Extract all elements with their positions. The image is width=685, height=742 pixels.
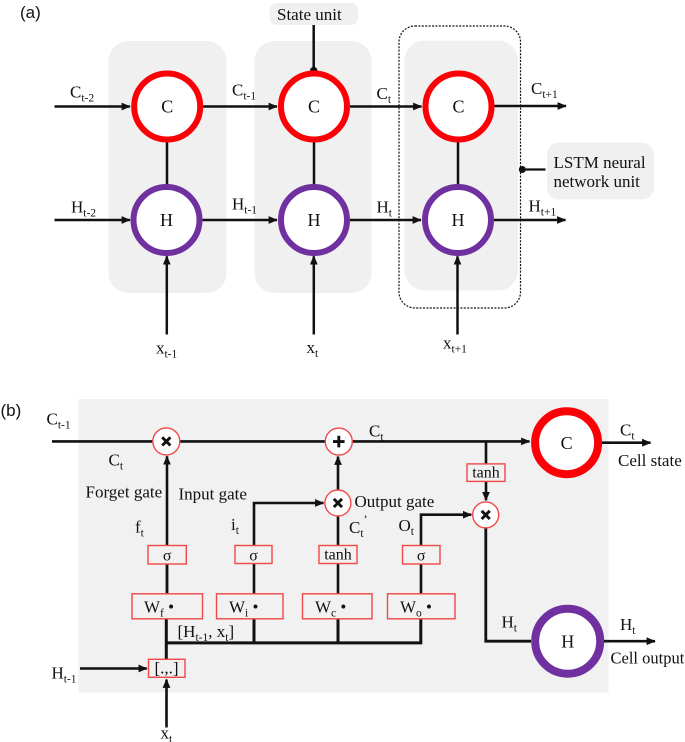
wire: multiply down to H node: [486, 527, 531, 641]
sigma box (forget): [148, 546, 186, 565]
svg-text:Ct: Ct: [620, 421, 635, 443]
wire: concat bus: [166, 619, 420, 643]
wire: bus branch to Wc: [337, 619, 340, 643]
wire Ct-1 arrow: [203, 105, 277, 108]
wire C-H connector cell 2: [313, 140, 316, 186]
cell group background 2: [255, 41, 372, 293]
H output node cell 3: [425, 187, 491, 253]
svg-text:Ct-1: Ct-1: [232, 81, 256, 103]
wire: junction down through tanh to multiply: [485, 441, 488, 500]
wire: candidate vertical Wc-tanh-multiply: [337, 503, 340, 594]
svg-text:Wo •: Wo •: [400, 598, 432, 620]
C state node cell 2: [281, 74, 347, 140]
svg-text:H: H: [452, 210, 465, 230]
wire C out arrow: [602, 441, 651, 444]
svg-text:C: C: [561, 433, 573, 453]
Wo weight box: [388, 594, 456, 619]
wire Ht+1 output arrow: [494, 219, 566, 222]
sigma box (input): [235, 546, 272, 564]
svg-text:σ: σ: [417, 548, 426, 565]
Wf weight box: [132, 594, 203, 619]
svg-text:Ct+1: Ct+1: [531, 79, 558, 101]
svg-text:C: C: [161, 97, 173, 117]
svg-text:tanh: tanh: [324, 547, 352, 564]
wire: sigma1 to Wf: [166, 563, 169, 595]
svg-text:(a): (a): [20, 3, 41, 22]
cell group background 1: [109, 41, 227, 293]
svg-text:[.,.]: [.,.]: [154, 659, 178, 678]
wire Ht-1 arrow: [203, 219, 278, 222]
wire: concat up to Wf: [165, 618, 168, 660]
cell group background 3: [405, 41, 519, 291]
H cell-output node: [535, 609, 600, 674]
wire C-H connector cell 1: [166, 140, 169, 186]
svg-text:Ht: Ht: [377, 198, 393, 220]
svg-text:State unit: State unit: [277, 5, 342, 24]
svg-text:H: H: [308, 210, 321, 230]
LSTM neural network unit label box: [547, 143, 654, 200]
svg-text:Ht+1: Ht+1: [529, 197, 557, 219]
svg-text:tanh: tanh: [472, 465, 500, 482]
tanh box (cell state): [467, 464, 505, 482]
wire Ct+1 output arrow: [495, 105, 567, 108]
svg-text:Cell state: Cell state: [618, 451, 682, 470]
svg-text:xt: xt: [161, 724, 174, 742]
H output node cell 2: [281, 187, 347, 253]
svg-text:σ: σ: [249, 548, 258, 565]
svg-text:xt+1: xt+1: [443, 334, 467, 356]
wire Ct arrow: [350, 105, 422, 108]
State unit label box: [270, 3, 359, 25]
svg-text:Ct-2: Ct-2: [70, 83, 94, 105]
C cell-state node: [535, 411, 598, 474]
Wc weight box: [303, 594, 373, 619]
wire Ht-1 input arrow: [80, 667, 147, 670]
sigma box (output): [403, 546, 441, 565]
wire: input gate L to multiply: [254, 503, 324, 594]
svg-text:Ht-2: Ht-2: [71, 198, 96, 220]
junction dot on dashed boundary: [519, 166, 526, 173]
svg-text:Input gate: Input gate: [179, 485, 247, 504]
concat box: [149, 659, 186, 677]
wire: multiply to add arrow: [337, 457, 340, 491]
svg-text:Ht: Ht: [620, 615, 636, 637]
dashed LSTM unit boundary: [399, 26, 521, 308]
svg-text:Wi •: Wi •: [229, 598, 258, 620]
add node: [325, 428, 352, 455]
svg-text:Wf •: Wf •: [144, 598, 174, 620]
cell internals backdrop: [79, 399, 609, 693]
wire xt-1 input arrow: [166, 256, 169, 334]
tanh box (candidate): [319, 546, 357, 564]
wire: State unit to C cell: [312, 25, 315, 70]
svg-text:C: C: [452, 97, 464, 117]
svg-text:Ct: Ct: [377, 84, 392, 106]
C state node cell 3: [426, 74, 492, 140]
wire Ct-2 input arrow: [55, 105, 131, 108]
wire Ht arrow: [350, 219, 421, 222]
C state node cell 1: [134, 74, 200, 140]
svg-text:xt: xt: [307, 338, 320, 360]
svg-text:H: H: [561, 632, 574, 652]
svg-text:(b): (b): [1, 401, 22, 420]
svg-text:xt-1: xt-1: [156, 339, 178, 361]
wire xt+1 input arrow: [456, 256, 459, 334]
svg-text:Wc •: Wc •: [315, 598, 346, 620]
Wi weight box: [217, 594, 284, 619]
multiply node (output): [473, 502, 499, 528]
wire H out arrow: [604, 640, 655, 643]
svg-text:Forget gate: Forget gate: [86, 483, 163, 502]
wire: forget gate vertical: [166, 456, 169, 594]
wire: callout to dashed boundary: [522, 168, 545, 170]
svg-text:network unit: network unit: [554, 172, 641, 191]
wire Ht-2 input arrow: [55, 219, 131, 222]
multiply node (forget): [153, 428, 180, 455]
wire: output gate L to multiply: [421, 515, 471, 594]
wire: bus branch to Wi: [253, 619, 256, 643]
H output node cell 1: [134, 187, 200, 253]
svg-text:Ct-1: Ct-1: [47, 410, 71, 432]
junction dot at top of C cell: [310, 67, 318, 75]
wire: main cell-state line: [52, 440, 530, 443]
svg-text:Ht-1: Ht-1: [52, 664, 77, 686]
svg-text:C: C: [308, 97, 320, 117]
svg-text:Output gate: Output gate: [355, 492, 435, 511]
wire C-H connector cell 3: [457, 140, 460, 186]
svg-text:Ht-1: Ht-1: [232, 195, 257, 217]
svg-text:LSTM neural: LSTM neural: [554, 153, 646, 172]
wire xt input arrow to concat: [165, 680, 168, 728]
svg-text:Cell output: Cell output: [611, 649, 685, 668]
svg-text:H: H: [160, 210, 173, 230]
multiply node (input): [325, 490, 351, 516]
svg-text:σ: σ: [163, 548, 172, 565]
wire xt input arrow: [313, 256, 316, 334]
